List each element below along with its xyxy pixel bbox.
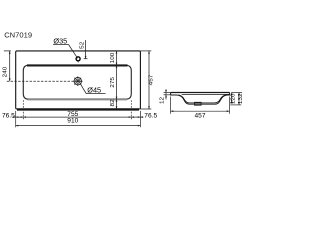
svg-text:76.5: 76.5: [144, 112, 157, 119]
svg-text:82: 82: [111, 99, 116, 106]
svg-text:Ø45: Ø45: [87, 86, 101, 95]
svg-text:CN7019: CN7019: [4, 30, 32, 39]
svg-text:457: 457: [194, 112, 205, 119]
svg-text:240: 240: [3, 66, 8, 77]
svg-text:100: 100: [111, 52, 116, 63]
svg-text:76.5: 76.5: [2, 112, 15, 119]
svg-text:275: 275: [111, 76, 116, 87]
svg-text:457: 457: [149, 75, 154, 86]
svg-text:132: 132: [239, 93, 244, 104]
svg-text:120: 120: [231, 93, 236, 104]
svg-text:52: 52: [80, 42, 85, 49]
svg-text:910: 910: [67, 117, 78, 124]
svg-text:12: 12: [160, 97, 165, 104]
